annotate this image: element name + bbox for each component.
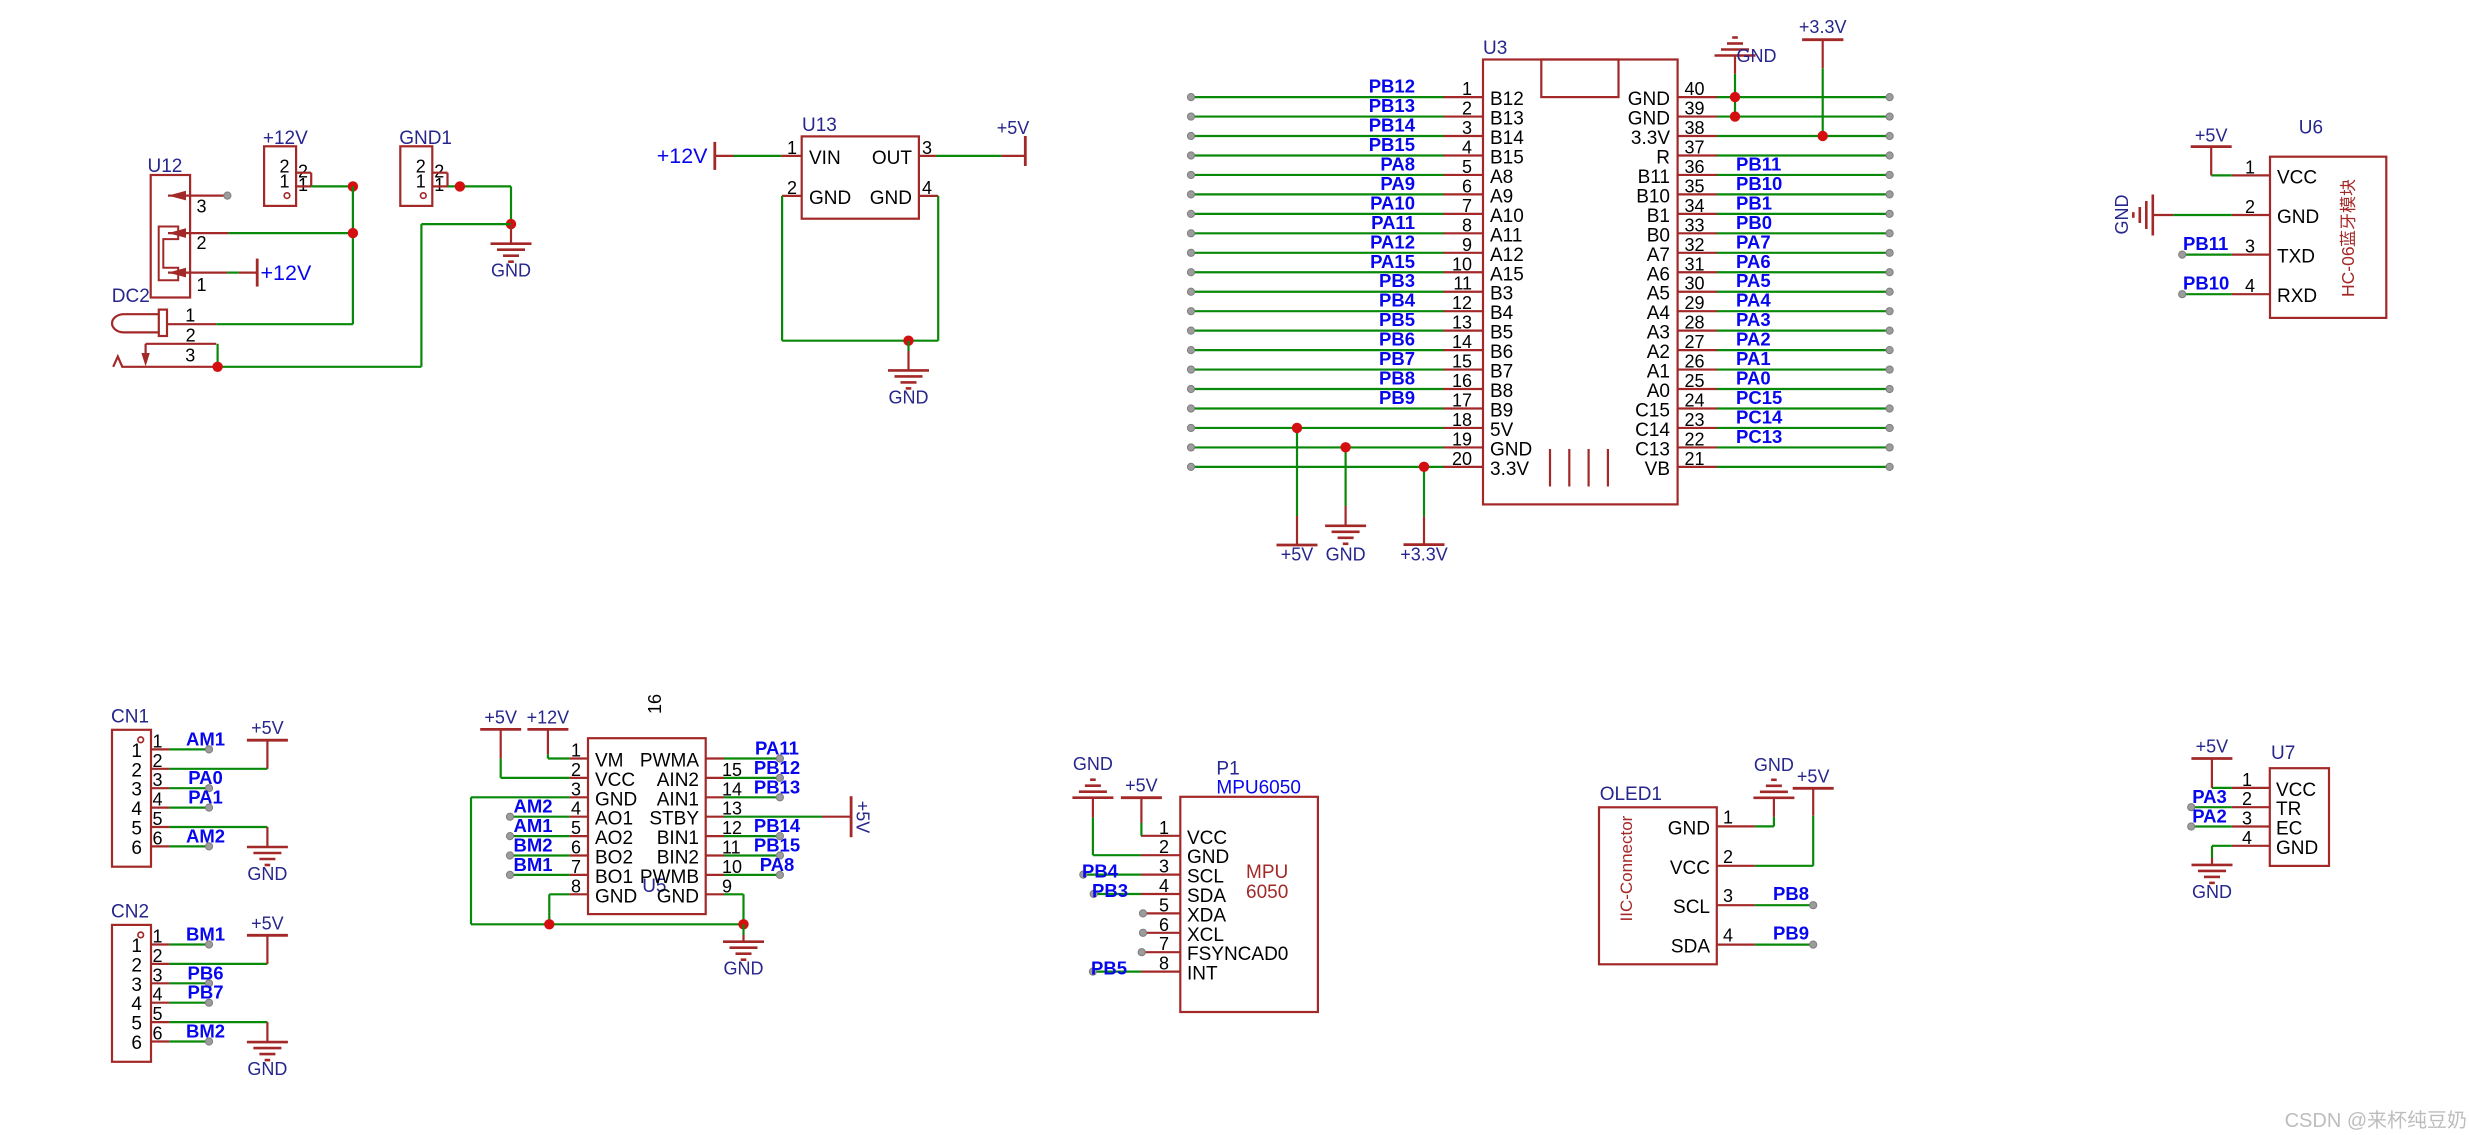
svg-text:1: 1 [434,175,444,195]
svg-text:PA0: PA0 [188,767,223,788]
svg-text:16: 16 [1452,371,1472,391]
svg-text:C14: C14 [1635,420,1670,441]
svg-text:4: 4 [2242,828,2252,848]
ground at CN1 pin5 [266,827,268,847]
wire U3 right pin 32 [1717,252,1890,254]
svg-text:GND: GND [1737,46,1777,66]
svg-text:B1: B1 [1647,206,1670,227]
svg-text:36: 36 [1685,157,1705,177]
wire U3 right pin 35 [1717,193,1890,195]
junction U3 pin38 [1818,131,1828,141]
svg-text:PB15: PB15 [754,835,800,856]
svg-text:6: 6 [1462,176,1472,196]
ground [2192,865,2233,883]
svg-text:RXD: RXD [2277,286,2317,307]
svg-text:A3: A3 [1647,323,1670,344]
svg-text:30: 30 [1685,274,1705,294]
svg-text:TXD: TXD [2277,247,2315,268]
svg-text:7: 7 [571,857,581,877]
svg-text:U13: U13 [802,115,837,136]
svg-text:PB12: PB12 [1369,76,1415,97]
wire U3 left pin 10 [1191,271,1444,273]
svg-text:PB7: PB7 [1379,348,1415,369]
svg-text:21: 21 [1685,449,1705,469]
wire U3 right pin 39 [1717,115,1890,117]
wire U3 left pin 20 [1191,466,1444,468]
svg-text:TR: TR [2276,799,2301,820]
svg-text:25: 25 [1685,371,1705,391]
svg-text:PWMB: PWMB [640,867,699,888]
svg-text:A4: A4 [1647,303,1671,324]
svg-text:20: 20 [1452,449,1472,469]
svg-text:AM1: AM1 [186,728,225,749]
svg-text:PB15: PB15 [1369,134,1415,155]
svg-text:B14: B14 [1490,128,1524,149]
svg-text:6: 6 [571,838,581,858]
wire U3 left pin 11 [1191,291,1444,293]
wire net BM2 [169,1040,209,1042]
wire net AM1 [169,748,209,750]
svg-text:PA11: PA11 [755,738,799,759]
unconnected stub U12 pin 3 [224,192,231,199]
svg-text:U7: U7 [2271,743,2295,764]
svg-text:PC13: PC13 [1736,426,1782,447]
wire U6 GND [2173,214,2232,216]
svg-text:PB11: PB11 [2183,233,2228,254]
connector GND1 header [399,128,452,206]
svg-text:6: 6 [131,1033,142,1054]
wire net PB11 to U6 TXD [2182,254,2232,256]
wire U3 left pin 8 [1191,232,1444,234]
svg-text:7: 7 [1159,934,1169,954]
wire net PB4 [1083,873,1141,875]
wire net PB10 to U6 RXD [2182,293,2232,295]
wire net BM1 [510,874,570,876]
svg-text:PA1: PA1 [1736,348,1771,369]
ground [1325,526,1366,544]
svg-text:PC14: PC14 [1736,406,1783,427]
connector +12V header [263,128,311,206]
svg-text:33: 33 [1685,215,1705,235]
svg-text:GND: GND [1326,545,1366,565]
svg-text:OLED1: OLED1 [1600,784,1662,805]
voltage regulator U13 [781,115,938,219]
wire net PA11 [724,757,780,759]
svg-text:GND: GND [2277,207,2319,228]
svg-text:6: 6 [131,838,142,859]
svg-text:GND: GND [595,886,637,907]
wire U3 right pin 21 [1717,466,1890,468]
power +3.3V symbol at U3 pin38 [1822,68,1824,136]
wire net PA1 [169,806,209,808]
wire U3 right pin 27 [1717,349,1890,351]
wire U3 right pin 28 [1717,330,1890,332]
ground below U13 [907,341,909,351]
svg-text:4: 4 [1159,876,1169,896]
svg-text:34: 34 [1685,196,1705,216]
svg-text:SCL: SCL [1673,897,1710,918]
wire U3 left pin 14 [1191,349,1444,351]
wire U13 GND loop [781,196,783,341]
svg-text:2: 2 [131,955,142,976]
svg-text:15: 15 [1452,352,1472,372]
svg-text:PA8: PA8 [760,854,795,875]
svg-text:4: 4 [1723,926,1733,946]
wire net PA8 [724,874,780,876]
svg-text:VCC: VCC [595,770,635,791]
svg-text:4: 4 [131,799,142,820]
svg-text:+5V: +5V [1797,766,1830,786]
svg-text:GND: GND [1668,818,1710,839]
svg-text:GND: GND [1490,439,1532,460]
svg-text:PB3: PB3 [1092,880,1128,901]
ground [723,942,764,960]
wire net AM2 [510,816,570,818]
svg-text:HC-06: HC-06 [2338,246,2358,297]
svg-text:PA4: PA4 [1736,290,1771,311]
wire U5 GND pin9 [724,893,744,895]
ground at P1 pin2 [1092,817,1094,855]
svg-text:BO2: BO2 [595,848,633,869]
svg-text:R: R [1656,147,1670,168]
svg-text:17: 17 [1452,390,1472,410]
DC jack DC2 [112,286,216,367]
svg-text:8: 8 [571,876,581,896]
wire U3 left pin 9 [1191,252,1444,254]
svg-text:PB1: PB1 [1736,192,1772,213]
connector CN1 [111,706,169,866]
ground at CN2 pin5 [266,1022,268,1042]
svg-text:3: 3 [2242,809,2252,829]
motor driver U5 [570,694,742,914]
svg-text:PWMA: PWMA [640,751,699,772]
svg-text:5V: 5V [1490,420,1514,441]
svg-text:GND: GND [247,1059,287,1079]
svg-text:PB6: PB6 [1379,329,1415,350]
svg-text:PB4: PB4 [1379,290,1416,311]
power +5V at U5 STBY (rotated) [724,816,822,818]
svg-text:GND: GND [1754,755,1794,775]
svg-text:PA15: PA15 [1370,251,1415,272]
wire GND tap U3 pin19 [1344,447,1346,506]
svg-text:PA1: PA1 [188,787,223,808]
wire +12V header pin1 junction [311,185,353,187]
svg-text:28: 28 [1685,313,1705,333]
svg-text:22: 22 [1685,429,1705,449]
svg-text:CSDN @: CSDN @ [2285,1110,2368,1132]
svg-text:PB13: PB13 [1369,95,1415,116]
svg-text:A11: A11 [1490,225,1522,246]
wire U5 GND pin3 loop [471,796,570,798]
ground [1753,780,1794,798]
svg-text:+5V: +5V [251,718,284,738]
svg-text:EC: EC [2276,819,2302,840]
power +5V at OLED1 VCC [1755,865,1813,867]
microcontroller U3 [1443,38,1718,504]
wire net PB15 [724,854,780,856]
svg-text:40: 40 [1685,79,1705,99]
wire CN1 pin 5 [169,826,267,828]
svg-text:B6: B6 [1490,342,1513,363]
junction U3 pin40 [1730,92,1740,102]
svg-text:A0: A0 [1647,381,1670,402]
svg-text:GND: GND [2276,838,2318,859]
svg-text:PA6: PA6 [1736,251,1771,272]
power +12V symbol at U12 pin1 [227,272,239,274]
svg-text:GND: GND [247,864,287,884]
svg-text:VCC: VCC [1670,858,1710,879]
svg-text:B8: B8 [1490,381,1513,402]
wire DC2 pin1 to +12V net [216,323,353,325]
svg-text:14: 14 [1452,332,1472,352]
svg-text:PB11: PB11 [1736,153,1781,174]
svg-text:3: 3 [197,197,207,217]
svg-text:DC2: DC2 [112,286,150,307]
ground at U3 pins 40/39 [1734,74,1736,117]
power +5V at U7 VCC [2212,787,2232,789]
wire U3 right pin 40 [1717,96,1890,98]
svg-text:PA3: PA3 [2192,786,2227,807]
svg-text:1: 1 [2242,770,2252,790]
svg-text:PB5: PB5 [1379,309,1415,330]
svg-text:3.3V: 3.3V [1490,459,1529,480]
svg-text:A8: A8 [1490,167,1513,188]
svg-text:GND: GND [491,261,531,281]
svg-text:3.3V: 3.3V [1631,128,1670,149]
svg-text:PA3: PA3 [1736,309,1771,330]
ground at U7 GND [2212,845,2232,847]
svg-text:MPU: MPU [1246,862,1288,883]
svg-text:8: 8 [1159,954,1169,974]
svg-text:STBY: STBY [649,809,699,830]
svg-text:18: 18 [1452,410,1472,430]
power +12V symbol at U13 VIN [734,155,782,157]
svg-text:3: 3 [1159,857,1169,877]
svg-text:2: 2 [1723,847,1733,867]
wire U5 GND pin8 [549,893,569,895]
wire +5V tap U3 pin18 [1296,428,1298,516]
svg-text:5: 5 [571,818,581,838]
svg-text:U12: U12 [148,156,183,177]
ground below U5 [742,924,744,935]
svg-text:5: 5 [131,819,142,840]
svg-text:2: 2 [571,760,581,780]
svg-text:A2: A2 [1647,342,1670,363]
svg-text:PB14: PB14 [754,815,801,836]
connector CN2 [111,902,169,1062]
wire net PA0 [169,787,209,789]
value label HC-06 bluetooth module (rotated) [2338,180,2358,297]
svg-text:+5V: +5V [251,913,284,933]
svg-text:PA0: PA0 [1736,368,1771,389]
svg-text:A5: A5 [1647,284,1670,305]
svg-text:2: 2 [1159,837,1169,857]
svg-text:10: 10 [1452,254,1472,274]
svg-text:29: 29 [1685,293,1705,313]
svg-text:1: 1 [1462,79,1472,99]
stub P1 XCL [1139,929,1146,936]
power +5V symbol at U13 OUT [936,155,1002,157]
svg-text:24: 24 [1685,390,1705,410]
power +3.3V symbol below U3 [1404,543,1445,546]
svg-text:1: 1 [298,175,308,195]
wire U3 left pin 6 [1191,193,1444,195]
svg-text:3: 3 [1462,118,1472,138]
power +5V symbol below U3 [1277,544,1318,547]
power +5V at U5 VCC [500,759,502,778]
svg-text:+5V: +5V [853,801,873,834]
wire U3 right pin 29 [1717,310,1890,312]
svg-text:1: 1 [197,275,207,295]
connector OLED1 [1599,784,1755,964]
svg-text:PA2: PA2 [1736,329,1771,350]
svg-text:3: 3 [131,975,142,996]
svg-text:+5V: +5V [997,118,1030,138]
svg-text:2: 2 [2242,789,2252,809]
svg-text:37: 37 [1685,137,1705,157]
svg-text:1: 1 [1159,818,1169,838]
svg-text:PA10: PA10 [1370,192,1415,213]
wire net PB12 [724,777,780,779]
svg-text:B5: B5 [1490,323,1513,344]
ground at U6 pin2 (rotated) [2133,195,2153,236]
svg-text:A10: A10 [1490,206,1524,227]
power +5V symbol at U6 VCC [2211,174,2232,176]
svg-text:PB13: PB13 [754,776,800,797]
svg-text:VCC: VCC [2277,167,2317,188]
wire net PA3 [2191,806,2232,808]
wire U3 left pin 19 [1191,446,1444,448]
svg-text:U3: U3 [1483,38,1507,59]
svg-text:B9: B9 [1490,400,1513,421]
wire U3 right pin 25 [1717,388,1890,390]
wire net PB9 [1755,943,1813,945]
svg-text:12: 12 [1452,293,1472,313]
wire net PB8 [1755,904,1813,906]
svg-text:PA11: PA11 [1371,212,1415,233]
svg-text:6: 6 [1159,915,1169,935]
DC jack U12 [148,156,229,298]
svg-text:GND: GND [1187,847,1229,868]
svg-text:+3.3V: +3.3V [1799,17,1847,37]
svg-text:3: 3 [185,346,195,366]
wire U3 right pin 30 [1717,291,1890,293]
svg-text:INT: INT [1187,964,1218,985]
wire CN2 pin 2 [169,963,267,965]
svg-text:1: 1 [131,936,142,957]
svg-text:16: 16 [645,694,665,714]
svg-text:32: 32 [1685,235,1705,255]
svg-text:1: 1 [416,171,426,191]
svg-text:U6: U6 [2299,117,2323,138]
svg-text:2: 2 [2245,197,2255,217]
svg-text:8: 8 [1462,215,1472,235]
wire U3 right pin 24 [1717,407,1890,409]
svg-text:B4: B4 [1490,303,1514,324]
wire net PA2 [2191,825,2232,827]
svg-text:PC15: PC15 [1736,387,1782,408]
wire net PB6 [169,982,209,984]
svg-text:FSYNCAD0: FSYNCAD0 [1187,944,1288,965]
svg-text:GND: GND [1628,89,1670,110]
svg-text:4: 4 [571,799,581,819]
svg-text:AIN1: AIN1 [657,789,699,810]
svg-text:BO1: BO1 [595,867,633,888]
svg-text:3: 3 [131,780,142,801]
junction U3 pin39 [1730,111,1740,121]
wire net AM1 [510,835,570,837]
svg-text:PB4: PB4 [1082,861,1119,882]
svg-text:2: 2 [1462,99,1472,119]
svg-text:PB12: PB12 [754,757,800,778]
wire U12 pin2 to +12V net [229,232,353,234]
svg-text:3: 3 [571,779,581,799]
wire U3 right pin 22 [1717,446,1890,448]
svg-text:PB3: PB3 [1379,270,1415,291]
wire U3 left pin 18 [1191,427,1444,429]
svg-text:B3: B3 [1490,284,1513,305]
svg-text:27: 27 [1685,332,1705,352]
svg-text:+12V: +12V [527,707,570,727]
wire U3 left pin 4 [1191,154,1444,156]
svg-text:PB5: PB5 [1091,958,1127,979]
svg-text:B10: B10 [1636,186,1670,207]
svg-text:BM2: BM2 [513,835,552,856]
svg-text:GND: GND [1628,109,1670,130]
wire GND1 pin1 to ground [448,185,512,187]
svg-text:19: 19 [1452,429,1472,449]
svg-text:5: 5 [1462,157,1472,177]
svg-text:B15: B15 [1490,147,1524,168]
wire CN2 pin 5 [169,1021,267,1023]
svg-text:1: 1 [185,306,195,326]
wire net PB13 [724,796,780,798]
ground symbol below GND1 [510,224,512,244]
svg-text:A12: A12 [1490,245,1524,266]
svg-text:3: 3 [1723,886,1733,906]
svg-text:C13: C13 [1635,439,1670,460]
svg-text:+5V: +5V [2195,126,2228,146]
svg-text:9: 9 [1462,235,1472,255]
svg-text:11: 11 [1453,274,1472,294]
wire U3 right pin 38 [1717,135,1890,137]
svg-text:2: 2 [197,233,207,253]
svg-text:VB: VB [1645,459,1670,480]
svg-text:A9: A9 [1490,186,1513,207]
svg-text:AM2: AM2 [186,825,225,846]
junction U5 gnd tap [738,919,748,929]
wire U3 left pin 13 [1191,330,1444,332]
svg-text:38: 38 [1685,118,1705,138]
svg-text:1: 1 [1723,807,1733,827]
svg-text:VCC: VCC [2276,780,2316,801]
ultrasonic connector U7 [2232,743,2329,866]
svg-text:PB6: PB6 [188,962,224,983]
svg-text:PA5: PA5 [1736,270,1771,291]
svg-text:GND: GND [724,959,764,979]
ground [491,244,532,262]
svg-text:AM2: AM2 [513,796,552,817]
svg-text:39: 39 [1685,99,1705,119]
svg-text:GND: GND [2112,195,2132,235]
svg-text:XDA: XDA [1187,905,1226,926]
power +5V at CN2 pin2 [266,935,268,964]
svg-text:PB7: PB7 [188,982,224,1003]
svg-text:PB14: PB14 [1369,115,1416,136]
power +5V at P1 VCC [1140,823,1142,836]
wire +12V vertical net [352,186,354,324]
wire U3 right pin 23 [1717,427,1890,429]
